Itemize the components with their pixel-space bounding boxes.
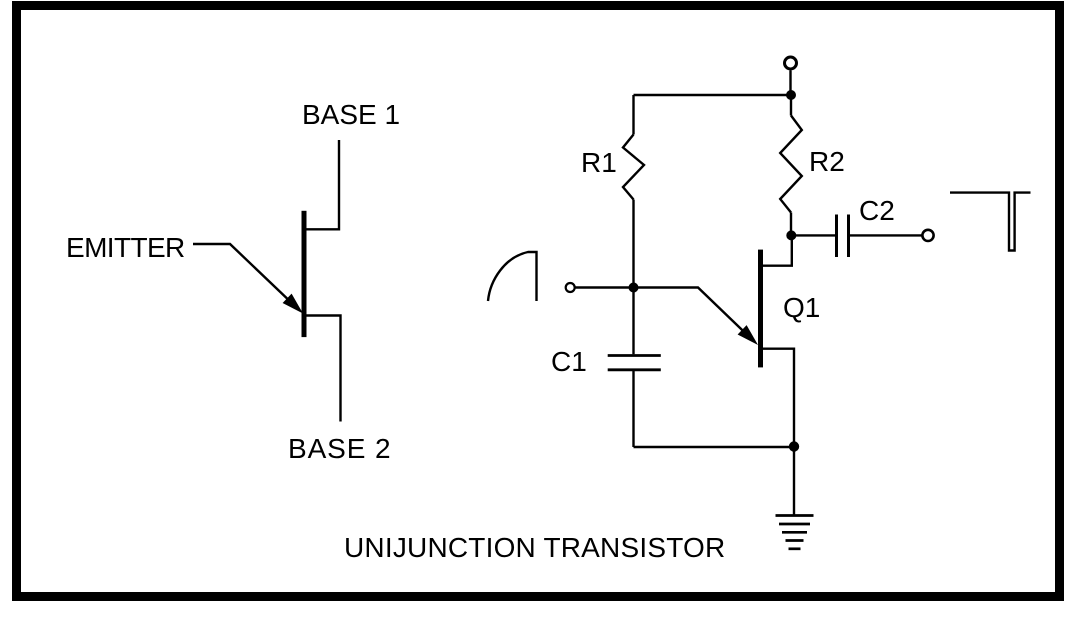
resistor R1	[623, 135, 644, 200]
wire R2 to output node	[790, 213, 792, 236]
wire C1 to bottom rail	[632, 371, 634, 447]
svg-text:R1: R1	[581, 147, 617, 178]
wire top node to R2	[790, 95, 792, 116]
UJT symbol bar (left figure)	[302, 211, 307, 337]
node top junction	[786, 90, 796, 100]
svg-text:BASE 1: BASE 1	[302, 99, 400, 130]
svg-text:UNIJUNCTION TRANSISTOR: UNIJUNCTION TRANSISTOR	[344, 532, 725, 563]
svg-text:C1: C1	[551, 346, 587, 377]
svg-text:BASE 2: BASE 2	[288, 433, 391, 464]
wire to ground	[793, 447, 795, 515]
capacitor C1	[608, 354, 661, 357]
Q1 base2 lead to output node	[763, 235, 792, 265]
wire top rail	[634, 94, 792, 96]
node output junction	[786, 230, 796, 240]
emitter leader wire	[193, 244, 296, 307]
node input junction	[629, 283, 639, 293]
resistor R2	[780, 116, 802, 213]
wire C2 to output terminal	[849, 234, 922, 236]
wire input node to C1	[632, 288, 634, 355]
wire R1 to input node	[632, 200, 634, 288]
wire terminal to top node	[789, 71, 791, 96]
input terminal	[566, 283, 575, 292]
emitter arrowhead	[283, 294, 303, 314]
capacitor C2	[835, 215, 838, 258]
node ground junction	[789, 441, 799, 451]
wire to R1	[632, 95, 634, 135]
output terminal	[922, 230, 933, 241]
wire input to emitter	[576, 288, 752, 340]
base 1 lead	[304, 140, 339, 229]
input waveform icon	[488, 252, 537, 301]
svg-text:EMITTER: EMITTER	[66, 232, 185, 263]
output waveform icon	[950, 193, 1031, 251]
svg-text:Q1: Q1	[783, 292, 820, 323]
wire output node to C2	[791, 234, 836, 236]
transistor Q1 bar	[758, 250, 763, 368]
wire bottom rail	[634, 446, 795, 448]
supply terminal	[785, 57, 797, 69]
emitter arrowhead Q1	[738, 325, 758, 345]
ground	[776, 516, 814, 549]
base 2 lead	[304, 316, 341, 422]
svg-text:R2: R2	[809, 146, 845, 177]
svg-text:C2: C2	[859, 195, 895, 226]
Q1 base1 lead to ground rail	[763, 349, 794, 447]
